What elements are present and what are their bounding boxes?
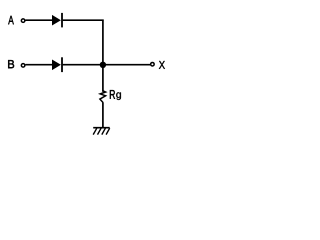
resistor Rg value label <box>110 90 121 100</box>
wire A terminal to diode D1 <box>25 19 53 21</box>
wire resistor to ground <box>102 102 104 128</box>
wire junction to resistor Rg <box>102 65 104 92</box>
terminal A <box>21 19 25 23</box>
wire B terminal to diode D2 <box>25 64 53 66</box>
node B label <box>8 60 14 68</box>
junction node <box>100 62 106 68</box>
resistor Rg <box>100 91 106 103</box>
ground <box>93 128 110 135</box>
terminal B <box>21 64 25 68</box>
node X label <box>159 61 165 69</box>
wire vertical corner down to junction <box>102 20 104 66</box>
diode D2 <box>52 57 62 72</box>
wire D2 cathode to terminal X <box>63 64 151 66</box>
node A label <box>8 16 14 24</box>
wire D1 cathode to corner <box>63 19 104 21</box>
diode D1 <box>52 13 62 28</box>
terminal X <box>151 62 155 66</box>
